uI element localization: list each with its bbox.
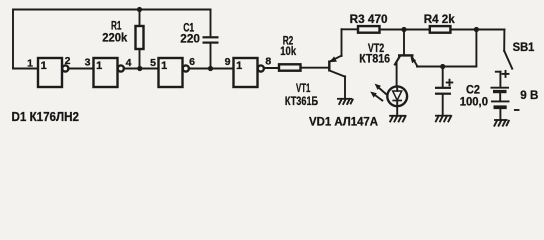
VT1 label bbox=[285, 81, 318, 108]
svg-text:220: 220 bbox=[180, 31, 200, 45]
C1 value label bbox=[180, 21, 200, 46]
resistor R2 bbox=[279, 64, 301, 70]
svg-text:R4 2k: R4 2k bbox=[424, 12, 455, 26]
svg-text:6: 6 bbox=[189, 56, 195, 68]
ground VD1 bbox=[389, 116, 406, 122]
VD1 label bbox=[309, 114, 378, 128]
C2 polarity plus bbox=[447, 80, 453, 86]
resistor R1 bbox=[136, 10, 144, 69]
pin 9 bbox=[225, 56, 231, 68]
svg-text:9: 9 bbox=[225, 56, 231, 68]
svg-text:4: 4 bbox=[126, 57, 132, 69]
svg-text:8: 8 bbox=[265, 56, 271, 68]
pin 4 bbox=[126, 57, 132, 69]
VD1 emission arrows bbox=[370, 84, 386, 101]
battery plus bbox=[503, 71, 509, 77]
wire gate1 to gate2 bbox=[68, 68, 93, 70]
junction R1 top bbox=[137, 7, 142, 12]
R1 value label bbox=[102, 18, 127, 44]
svg-text:D1 К176ЛН2: D1 К176ЛН2 bbox=[12, 110, 80, 124]
svg-text:220k: 220k bbox=[102, 31, 127, 45]
inverter D1.2 bbox=[94, 58, 124, 87]
pin 2 bbox=[65, 55, 71, 67]
wire VT1 emitter to R3 bbox=[342, 28, 359, 30]
pin 1 bbox=[27, 58, 33, 70]
VT2 label bbox=[359, 41, 390, 66]
R2 value label bbox=[280, 33, 296, 58]
pin 5 bbox=[150, 57, 156, 69]
wire R3 to R4 bbox=[380, 29, 430, 31]
capacitor C2 bbox=[435, 67, 451, 116]
ground VT1 collector bbox=[337, 99, 353, 104]
svg-text:SB1: SB1 bbox=[513, 40, 535, 54]
svg-text:9 В: 9 В bbox=[520, 88, 538, 102]
pushbutton SB1 bbox=[496, 30, 512, 88]
SB1 label bbox=[513, 40, 535, 54]
svg-text:1: 1 bbox=[161, 60, 167, 72]
wire VT2 emitter rail bbox=[417, 30, 476, 67]
transistor VT1 bbox=[329, 29, 345, 98]
svg-text:1: 1 bbox=[96, 60, 102, 72]
svg-text:1: 1 bbox=[27, 58, 33, 70]
svg-text:5: 5 bbox=[150, 57, 156, 69]
junction VT2 base node bbox=[401, 27, 406, 32]
battery voltage label bbox=[520, 88, 538, 102]
pin 6 bbox=[189, 56, 195, 68]
inverter D1.3 bbox=[159, 58, 189, 87]
svg-text:1: 1 bbox=[236, 60, 242, 72]
wire R4 to SB1 bbox=[450, 29, 504, 31]
inverter D1.1 bbox=[38, 58, 68, 87]
svg-text:R3 470: R3 470 bbox=[350, 12, 388, 26]
battery GB1 9V bbox=[491, 88, 510, 120]
wire gate3 to gate4 bbox=[189, 68, 234, 70]
junction C1 bottom bbox=[208, 66, 213, 71]
pin 3 bbox=[85, 57, 91, 69]
ground C2 bbox=[435, 116, 451, 122]
wire VT2 collector to VD1 bbox=[395, 57, 400, 86]
C2 label bbox=[460, 83, 489, 109]
wire top feedback rail bbox=[13, 10, 211, 69]
svg-text:VD1 АЛ147А: VD1 АЛ147А bbox=[309, 114, 378, 128]
svg-text:КТ816: КТ816 bbox=[359, 52, 390, 66]
svg-text:3: 3 bbox=[85, 57, 91, 69]
wire input to gate 1 bbox=[13, 68, 38, 70]
junction R1 bottom bbox=[137, 66, 142, 71]
inverter D1.4 bbox=[234, 58, 264, 87]
svg-text:2: 2 bbox=[65, 55, 71, 67]
LED VD1 bbox=[387, 86, 407, 115]
pin 8 bbox=[265, 56, 271, 68]
R3 value label bbox=[350, 12, 388, 26]
IC label D1 bbox=[12, 110, 80, 124]
battery minus bbox=[515, 109, 519, 111]
capacitor C1 bbox=[203, 10, 219, 69]
ground battery bbox=[494, 120, 509, 126]
wire gate2 to gate3 bbox=[124, 68, 159, 70]
junction C2/emitter node top bbox=[474, 27, 479, 32]
transistor VT2 bbox=[395, 30, 418, 67]
junction C2 top bbox=[440, 64, 445, 69]
svg-text:1: 1 bbox=[41, 60, 47, 72]
svg-text:VT1: VT1 bbox=[296, 81, 311, 95]
svg-text:100,0: 100,0 bbox=[460, 95, 489, 109]
wire R2 to VT1 base bbox=[301, 67, 329, 69]
resistor R4 bbox=[430, 26, 451, 33]
svg-text:КТ361Б: КТ361Б bbox=[285, 94, 318, 108]
resistor R3 bbox=[358, 26, 380, 33]
wire gate4 to R2 bbox=[264, 67, 279, 69]
R4 value label bbox=[424, 12, 455, 26]
svg-text:10k: 10k bbox=[280, 44, 296, 58]
